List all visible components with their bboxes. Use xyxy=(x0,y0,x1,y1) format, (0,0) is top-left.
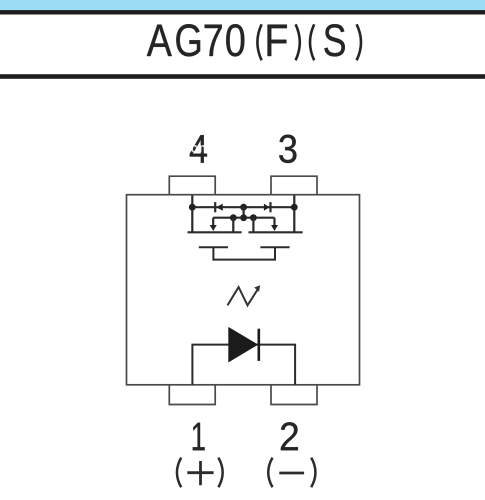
body diode D1 xyxy=(215,202,223,212)
wire gate tie xyxy=(213,247,275,259)
header bottom rule xyxy=(0,74,485,79)
header top rule xyxy=(0,10,485,14)
pin 1 tab xyxy=(169,385,215,405)
node B xyxy=(240,204,247,211)
node A xyxy=(189,204,196,211)
polarity (-) paren left xyxy=(268,458,272,488)
MOSFET Q1 gate xyxy=(199,246,228,248)
svg-text:y.cm: y.cm xyxy=(179,141,211,156)
polarity (+) paren right xyxy=(218,458,222,488)
MOSFET Q2 body arrow xyxy=(271,218,278,231)
wire source tie stub xyxy=(243,207,245,218)
pin 3 tab xyxy=(271,176,317,195)
node D xyxy=(230,214,237,221)
pin 4 tab xyxy=(169,176,215,195)
title paren 2 xyxy=(296,24,300,60)
wire drain pin4 xyxy=(191,196,193,233)
MOSFET Q2 gate xyxy=(260,246,289,248)
LED loop wire xyxy=(192,345,295,385)
header cyan band xyxy=(0,0,485,11)
title paren 1 xyxy=(257,24,261,60)
wire source contact Q2 xyxy=(252,218,254,233)
package outline U1 xyxy=(127,195,360,385)
title AG70 letters xyxy=(147,24,345,56)
polarity (-) paren right xyxy=(311,458,315,488)
polarity + sign xyxy=(187,461,213,485)
polarity (+) paren left xyxy=(177,458,181,488)
wire drain-drain top xyxy=(192,206,294,208)
wire source rail xyxy=(213,217,274,219)
LED D3 cathode bar xyxy=(257,329,260,361)
photovoltaic coupler zigzag xyxy=(228,285,261,305)
wire drain pin3 xyxy=(293,196,295,233)
title paren 3 xyxy=(310,24,314,60)
pin 2 tab xyxy=(271,385,317,405)
node E xyxy=(240,214,247,221)
MOSFET Q1 body arrow xyxy=(210,218,217,231)
wire source contact Q1 xyxy=(232,218,234,233)
body diode D2 xyxy=(264,202,271,212)
pin label 3 xyxy=(279,135,296,163)
pin label 1 xyxy=(193,423,205,451)
node F xyxy=(250,214,257,221)
MOSFET Q2 channel xyxy=(249,231,303,233)
node C xyxy=(291,204,298,211)
pin label 4 xyxy=(190,135,207,163)
pin label 2 xyxy=(281,422,298,450)
title paren 4 xyxy=(357,24,361,60)
LED D3 anode triangle xyxy=(228,327,258,363)
polarity - sign xyxy=(279,472,304,475)
MOSFET Q1 channel xyxy=(188,231,242,233)
